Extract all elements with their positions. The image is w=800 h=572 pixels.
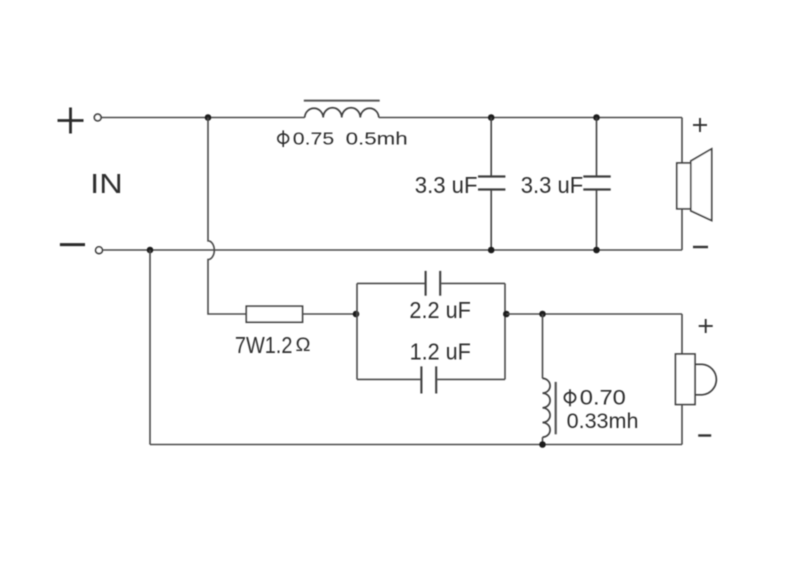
node junction cap C1 top (488, 114, 495, 121)
woofer minus mark (693, 246, 708, 248)
svg-text:0.5mh: 0.5mh (346, 128, 408, 148)
node junction C1 bottom (488, 247, 495, 254)
input plus terminal (94, 114, 101, 121)
wire tweeter feed (681, 314, 683, 354)
svg-text:7W1.2: 7W1.2 (235, 332, 293, 358)
wire box to tweeter (506, 313, 682, 315)
capacitor C2 3.3uF (583, 118, 610, 251)
svg-text:2.2 uF: 2.2 uF (409, 297, 471, 323)
svg-text:3.3 uF: 3.3 uF (415, 172, 478, 198)
wire parallel box top side (357, 282, 425, 284)
resistor R1 body (246, 306, 302, 322)
wire left vertical to bottom rail (149, 250, 151, 445)
wire shunt down to coil (542, 314, 544, 378)
woofer speaker LS1 body (677, 163, 691, 209)
wire minus rail (102, 249, 682, 251)
woofer speaker LS1 horn (691, 149, 712, 221)
inductor L2 label phi symbol (564, 389, 575, 406)
wire resistor to box (303, 313, 357, 315)
node junction box right (503, 311, 510, 318)
node junction cap C2 top (593, 114, 600, 121)
inductor L1 core bar (304, 100, 380, 102)
wire top rail left (101, 117, 304, 119)
wire parallel box bottom right (437, 378, 505, 380)
wire woofer return down (681, 209, 683, 250)
node junction coil bottom (539, 441, 546, 448)
wire parallel box top right (441, 282, 505, 284)
node junction box left (353, 311, 360, 318)
svg-text:0.75: 0.75 (293, 128, 334, 148)
wire woofer feed down (681, 118, 683, 164)
wire parallel box bottom side (357, 378, 420, 380)
inductor L1 coil (305, 108, 379, 118)
svg-text:3.3 uF: 3.3 uF (521, 172, 583, 198)
input minus symbol (60, 243, 85, 246)
tweeter speaker LS2 dome (695, 364, 716, 395)
wire vertical from top junction with hop over minus rail (208, 118, 246, 315)
capacitor C4 1.2uF plates (421, 366, 436, 393)
wire bottom rail (150, 444, 682, 446)
svg-text:1.2 uF: 1.2 uF (410, 339, 471, 365)
woofer plus mark (693, 118, 707, 132)
node junction C2 bottom (593, 247, 600, 254)
node junction minus-left (147, 247, 154, 254)
wire top rail right (379, 117, 682, 119)
capacitor C3 2.2uF plates (426, 271, 441, 296)
wire tweeter return (681, 405, 683, 445)
tweeter speaker LS2 body (676, 354, 696, 405)
svg-text:0.33mh: 0.33mh (567, 410, 639, 433)
wire coil to bottom rail (542, 437, 544, 444)
inductor L1 value label phi symbol (278, 130, 289, 147)
svg-text:Ω: Ω (296, 334, 311, 356)
input plus symbol (58, 108, 84, 134)
node junction tweeter shunt top (539, 311, 546, 318)
svg-text:IN: IN (90, 168, 123, 199)
wire parallel box left side (356, 283, 358, 379)
node junction top-left (205, 114, 212, 121)
tweeter minus mark (698, 434, 711, 436)
inductor L2 coil (543, 378, 551, 437)
tweeter plus mark (699, 319, 713, 333)
capacitor C1 3.3uF (478, 118, 505, 251)
inductor L2 core bar (555, 382, 557, 434)
svg-text:0.70: 0.70 (580, 386, 626, 409)
wire parallel box right side (504, 283, 506, 379)
input minus terminal (96, 247, 103, 254)
